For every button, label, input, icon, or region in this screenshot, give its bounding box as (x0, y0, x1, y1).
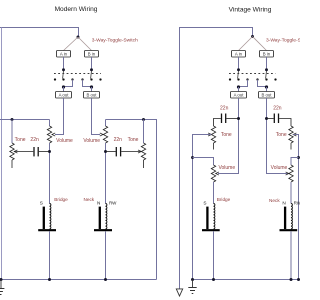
potentiometer vintage bridge Volume (211, 165, 215, 182)
svg-text:S: S (203, 200, 206, 205)
wire left frame modern (1, 28, 3, 280)
wire tone bottom lead floating (vintage bridge) (213, 143, 215, 150)
svg-text:S: S (40, 200, 43, 205)
terminal box B in (85, 51, 99, 58)
wire to bridge tone pot (11, 120, 13, 144)
node neck pickup ground (104, 278, 107, 281)
wire to A out box (63, 87, 65, 92)
pickup Bridge (modern) (38, 204, 56, 231)
wire A in to switch pole A (vintage) (238, 57, 240, 68)
wire neck volume top to right frame (106, 120, 157, 280)
wire bridge volume top lead (49, 120, 51, 127)
pickup Neck (modern) (94, 204, 112, 231)
wire neck volume top lead (105, 120, 107, 127)
wire neck volume bottom to pickup (105, 143, 107, 204)
svg-text:Volume: Volume (218, 165, 235, 171)
node bus ground (191, 278, 194, 281)
terminal box B out (vintage) (259, 92, 275, 99)
wire bus to volume top (vintage neck) (291, 158, 299, 166)
wire cap to volume line (39, 151, 50, 153)
wire A in to switch pole A (63, 57, 65, 68)
wire A out down to bridge volume wiper (vintage) (218, 98, 239, 174)
svg-text:Modern Wiring: Modern Wiring (55, 6, 98, 13)
wire cap to tone pot (vintage neck) (279, 119, 291, 127)
switch blade pole A (62, 71, 65, 79)
capacitor 22n neck (115, 147, 117, 156)
node switch B output (vintage) (265, 85, 268, 88)
wire diagonal to A in (64, 37, 79, 51)
node switch A output (62, 85, 65, 88)
wire tone wiper to right bus (vintage neck) (293, 135, 298, 280)
node switch A input (62, 68, 65, 71)
wire top bus vintage (180, 28, 253, 289)
svg-text:RW: RW (109, 200, 117, 205)
wire bridge pickup to ground bus (49, 231, 51, 279)
wire bridge pickup to ground (vintage) (213, 231, 215, 279)
wire tone wiper to ground bus (vintage bridge) (193, 135, 212, 280)
svg-text:B in: B in (88, 51, 96, 56)
terminal box A in (vintage) (232, 51, 246, 58)
terminal box A out (vintage) (231, 92, 247, 99)
wire neck pickup to ground (vintage) (290, 231, 292, 279)
switch blade pole B (90, 71, 93, 79)
svg-text:A out: A out (59, 92, 70, 97)
potentiometer bridge Volume (47, 126, 51, 143)
switch blade pole B (vintage) (265, 71, 268, 79)
terminal box A out (56, 92, 72, 99)
svg-text:3-Way-Toggle-Switch: 3-Way-Toggle-Switch (266, 37, 300, 43)
node neck tone cap junction (104, 150, 107, 153)
wire pole A right throw to output (64, 80, 73, 87)
wire B in to switch pole B (vintage) (266, 57, 268, 68)
wire neck cap to tone wiper (121, 151, 141, 153)
wire tone bottom lead floating (vintage neck) (290, 143, 292, 150)
wire top bus modern (switch common feed) (0, 28, 79, 37)
node volume top branch (vintage neck) (297, 156, 300, 159)
svg-text:Neck: Neck (269, 198, 280, 203)
node volume top branch (vintage bridge) (191, 156, 194, 159)
wire to neck tone pot (143, 120, 145, 144)
output arrow symbol (open triangle) (176, 289, 182, 296)
wire bridge tone bottom lead (floating) (11, 160, 13, 168)
wiper arrow bridge tone (14, 150, 17, 153)
svg-text:Volume: Volume (83, 138, 100, 144)
wire pole B left throw to output (vintage) (258, 80, 267, 87)
terminal box B in (vintage) (260, 51, 274, 58)
wire ground bus to bridge volume top (0, 119, 50, 121)
pickup Neck (vintage) (280, 204, 298, 231)
capacitor 22n bridge (33, 147, 35, 156)
switch mechanical link dashed (vintage) (229, 73, 276, 75)
wire bus to volume top (vintage bridge) (193, 158, 214, 166)
wire pole A right throw to output (vintage) (239, 80, 248, 87)
svg-text:Tone: Tone (276, 132, 287, 138)
node switch common vintage (251, 35, 254, 38)
svg-text:Tone: Tone (15, 137, 26, 143)
wire bottom ground bus vintage (193, 279, 301, 281)
node switch common modern (77, 36, 80, 39)
svg-text:Volume: Volume (56, 138, 73, 144)
wire neck pickup to ground bus (105, 231, 107, 279)
node bridge tone cap junction (48, 150, 51, 153)
wire to B out box (vintage) (266, 87, 268, 92)
wire volume line to neck cap (106, 151, 116, 153)
svg-text:N: N (97, 200, 100, 205)
wiper arrow neck tone (138, 150, 141, 153)
wire B out down to neck volume wiper (vintage) (267, 98, 289, 174)
wiper arrow neck volume (vintage) (286, 172, 289, 175)
ground symbol modern (partially cropped) (0, 280, 4, 295)
switch blade pole A (vintage) (237, 71, 240, 79)
svg-text:B in: B in (263, 51, 271, 56)
svg-text:B out: B out (86, 92, 97, 97)
wire volume bottom to pickup (vintage bridge) (213, 182, 215, 204)
potentiometer bridge Tone (10, 143, 14, 160)
wiper arrow bridge volume (52, 133, 55, 136)
svg-text:N: N (282, 201, 285, 206)
node bridge cap branch (vintage) (237, 117, 240, 120)
node bridge tone branch (11, 118, 14, 121)
terminal box A in (57, 51, 71, 58)
svg-text:22n: 22n (30, 137, 39, 143)
wire to B out box (91, 87, 93, 92)
svg-text:Bridge: Bridge (54, 197, 68, 202)
wire A out to bridge volume wiper (55, 98, 64, 135)
wire diagonal to A in (vintage) (239, 37, 253, 51)
node bridge pickup ground (48, 278, 51, 281)
node switch B input (vintage) (265, 68, 268, 71)
switch pole B contacts (vintage) (256, 78, 276, 80)
svg-text:Tone: Tone (221, 132, 232, 138)
node switch A output (vintage) (237, 85, 240, 88)
potentiometer vintage neck Tone (289, 126, 293, 143)
wire diagonal to B in (vintage) (253, 37, 267, 51)
svg-text:3-Way-Toggle-Switch: 3-Way-Toggle-Switch (92, 37, 138, 43)
potentiometer vintage neck Volume (289, 165, 293, 182)
wiper arrow neck volume (100, 133, 103, 136)
wire cap branch right (vintage neck) (267, 118, 274, 120)
node switch B input (90, 68, 93, 71)
capacitor 22n vintage bridge (221, 114, 223, 124)
wire to A out box (vintage) (238, 87, 240, 92)
wire pole B left throw to output (83, 80, 92, 87)
wire B in to switch pole B (91, 57, 93, 68)
wire diagonal to B in (78, 37, 92, 51)
node bridge pickup ground (vintage) (212, 278, 215, 281)
svg-text:A out: A out (234, 92, 245, 97)
wire bottom ground bus modern (0, 279, 157, 281)
switch mechanical link (dashed) (54, 73, 101, 75)
svg-text:A in: A in (235, 51, 243, 56)
potentiometer neck Tone (141, 143, 145, 160)
switch pole B contacts (81, 78, 101, 80)
svg-text:Volume: Volume (271, 165, 288, 171)
svg-text:22n: 22n (114, 137, 123, 143)
wire volume bottom to pickup (vintage neck) (290, 182, 292, 204)
node ground left (0, 278, 3, 281)
potentiometer neck Volume (103, 126, 107, 143)
wire B out to neck volume wiper (92, 98, 101, 135)
svg-text:22n: 22n (273, 105, 282, 111)
node neck pickup ground (vintage) (290, 278, 293, 281)
svg-text:RW: RW (294, 201, 300, 206)
node switch A input (vintage) (237, 68, 240, 71)
switch pole A contacts (vintage) (229, 78, 249, 80)
wiper arrow vintage neck tone (293, 133, 296, 136)
wiper arrow vintage bridge tone (208, 133, 211, 136)
capacitor 22n vintage neck (273, 114, 275, 124)
potentiometer vintage bridge Tone (211, 126, 215, 143)
svg-text:Vintage Wiring: Vintage Wiring (229, 7, 272, 14)
switch pole A contacts (54, 78, 74, 80)
svg-text:22n: 22n (220, 105, 229, 111)
wire bridge tone wiper to cap (14, 151, 33, 153)
node neck cap branch (vintage) (265, 117, 268, 120)
ground symbol vintage (188, 280, 196, 294)
svg-text:Neck: Neck (83, 197, 94, 202)
wire neck tone bottom lead (floating) (143, 160, 145, 168)
terminal box B out (84, 92, 100, 99)
node switch B output (90, 85, 93, 88)
pickup Bridge (vintage) (202, 204, 220, 231)
wiper arrow bridge volume (vintage) (216, 172, 219, 175)
svg-text:Tone: Tone (128, 137, 139, 143)
svg-text:A in: A in (60, 51, 68, 56)
svg-text:B out: B out (261, 92, 272, 97)
node right bus ground (vintage) (297, 278, 300, 281)
wire bridge volume bottom to pickup (49, 143, 51, 204)
wire cap branch left (vintage bridge) (226, 118, 238, 120)
svg-text:Bridge: Bridge (217, 197, 231, 202)
wire cap to tone pot (vintage bridge) (214, 119, 221, 127)
node neck tone branch (142, 118, 145, 121)
